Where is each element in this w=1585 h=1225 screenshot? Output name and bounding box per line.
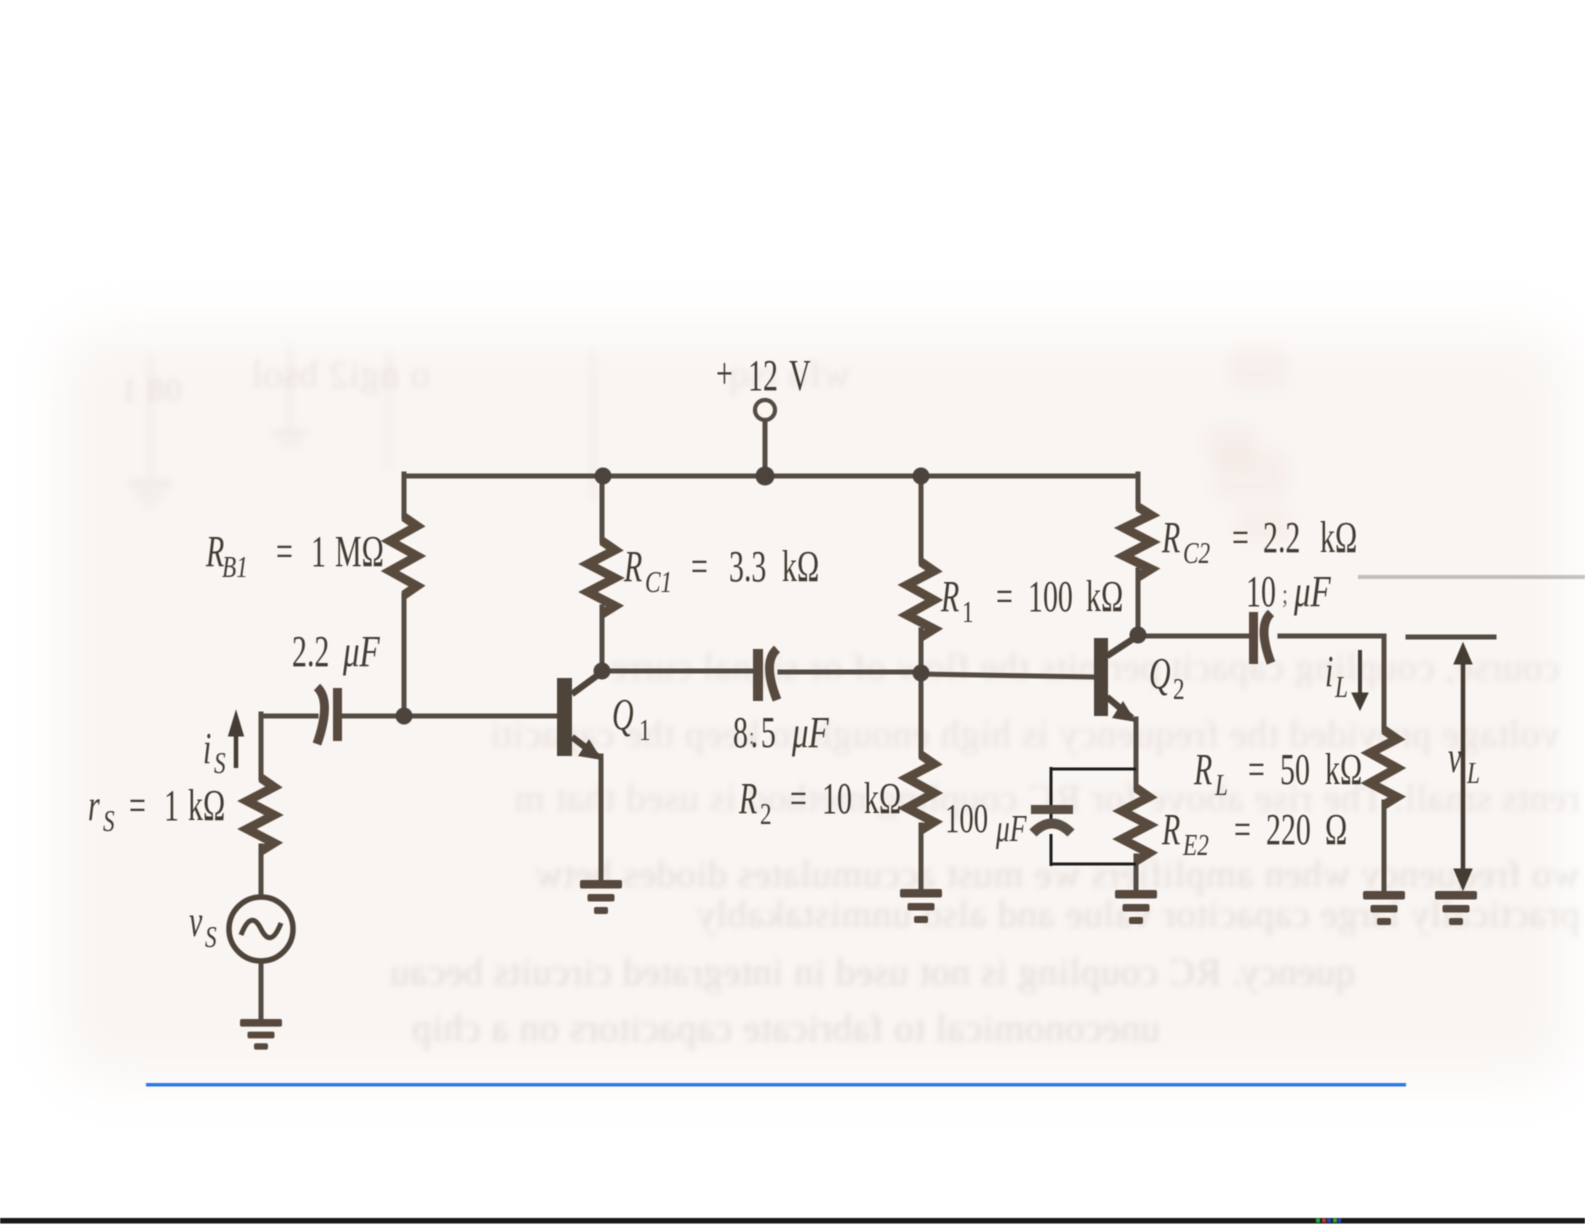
svg-text:R: R [940, 572, 959, 621]
svg-text:kΩ: kΩ [1325, 745, 1362, 794]
svg-text:Q: Q [1149, 649, 1171, 698]
svg-text:L: L [1214, 768, 1228, 802]
svg-text:μF: μF [791, 709, 830, 758]
svg-text:v: v [189, 897, 203, 946]
svg-text:C1: C1 [645, 565, 672, 599]
svg-text:10: 10 [822, 774, 852, 823]
svg-text:2.2: 2.2 [1263, 513, 1300, 562]
svg-text:R: R [1161, 513, 1180, 562]
svg-text:C2: C2 [1183, 536, 1210, 570]
svg-text:=: = [1248, 745, 1265, 794]
svg-text:Q: Q [612, 690, 634, 739]
svg-text:1: 1 [311, 527, 326, 576]
svg-text:μF: μF [1293, 568, 1332, 617]
svg-text:MΩ: MΩ [335, 527, 384, 576]
svg-text:2: 2 [1173, 672, 1185, 706]
svg-text:12: 12 [748, 351, 778, 400]
svg-text:R: R [738, 774, 757, 823]
svg-text:=: = [276, 527, 293, 576]
svg-text:μF: μF [342, 628, 381, 677]
svg-text:100: 100 [1028, 572, 1073, 621]
svg-text:2: 2 [760, 797, 772, 831]
svg-text:220: 220 [1266, 805, 1311, 854]
svg-text:50: 50 [1280, 745, 1310, 794]
svg-text:1: 1 [639, 713, 651, 747]
svg-text:=: = [996, 572, 1013, 621]
svg-text:v: v [1448, 733, 1462, 782]
svg-text:R: R [1161, 805, 1180, 854]
svg-text:2.2: 2.2 [292, 627, 329, 676]
svg-text:1: 1 [164, 781, 179, 830]
svg-text:L: L [1466, 756, 1480, 790]
svg-text:+: + [716, 349, 733, 398]
svg-text:8.5: 8.5 [733, 708, 779, 757]
svg-text:i: i [203, 724, 211, 773]
svg-text:;: ; [1282, 580, 1288, 610]
svg-text:kΩ: kΩ [782, 542, 819, 591]
svg-text:R: R [623, 542, 642, 591]
svg-text:S: S [205, 920, 217, 954]
svg-text:V: V [789, 351, 811, 400]
svg-text:S: S [214, 746, 226, 780]
svg-text:S: S [103, 804, 115, 838]
svg-text:i: i [1325, 647, 1333, 696]
svg-text:B1: B1 [222, 550, 248, 584]
svg-text:=: = [1234, 805, 1251, 854]
svg-text:L: L [1334, 670, 1348, 704]
svg-text:kΩ: kΩ [1086, 572, 1123, 621]
svg-text:1: 1 [962, 595, 974, 629]
svg-text:μF: μF [995, 808, 1027, 850]
svg-text:r: r [88, 781, 100, 830]
svg-text::: : [749, 723, 754, 750]
svg-text:=: = [1232, 513, 1249, 562]
svg-text:kΩ: kΩ [1320, 513, 1357, 562]
svg-text:=: = [790, 774, 807, 823]
svg-text:=: = [129, 781, 146, 830]
svg-text:R: R [1193, 745, 1212, 794]
svg-text:kΩ: kΩ [864, 774, 901, 823]
svg-text:10: 10 [1246, 567, 1276, 616]
svg-text:3.3: 3.3 [729, 542, 766, 591]
svg-text:100: 100 [945, 795, 988, 841]
svg-text:kΩ: kΩ [188, 781, 225, 830]
svg-text:=: = [691, 542, 708, 591]
svg-text:Ω: Ω [1325, 805, 1347, 854]
svg-text:E2: E2 [1182, 828, 1209, 862]
